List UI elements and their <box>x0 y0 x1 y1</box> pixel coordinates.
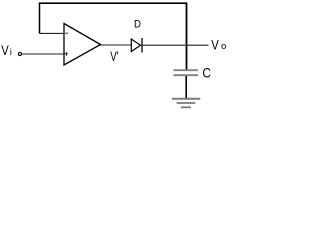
diode D <box>131 39 140 52</box>
svg-text:D: D <box>134 19 141 31</box>
wire feedback top <box>39 2 187 4</box>
svg-text:V: V <box>211 37 219 53</box>
wire noninverting input <box>22 53 64 55</box>
wire feedback left vertical <box>39 3 41 33</box>
op-amp plus pin mark <box>65 52 69 56</box>
capacitor C top plate <box>174 69 199 71</box>
ground bar 3 <box>181 106 191 108</box>
ground bar 2 <box>177 102 196 104</box>
terminal Vi <box>18 52 21 55</box>
wire diode to output node <box>142 44 209 46</box>
svg-text:o: o <box>221 41 226 52</box>
op-amp minus pin mark <box>65 32 68 34</box>
diode D cathode bar <box>141 38 143 53</box>
wire op-amp output to diode <box>101 44 132 46</box>
svg-text:V': V' <box>110 48 118 64</box>
svg-text:V: V <box>1 42 9 58</box>
op-amp U1 <box>64 24 101 66</box>
ground bar 1 <box>172 98 200 100</box>
svg-text:i: i <box>10 47 12 57</box>
wire feedback right vertical (node to capacitor) <box>186 3 188 69</box>
capacitor C bottom plate <box>174 74 199 76</box>
svg-text:C: C <box>202 65 211 81</box>
wire inverting input <box>40 32 65 34</box>
wire capacitor to ground <box>185 76 187 99</box>
